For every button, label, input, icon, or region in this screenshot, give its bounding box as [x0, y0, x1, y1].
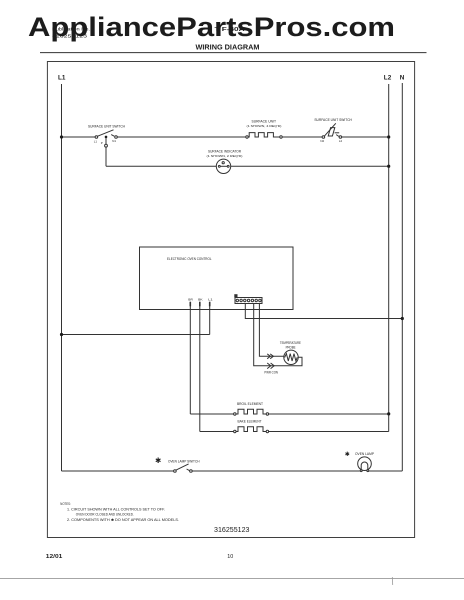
- svg-text:L2: L2: [339, 139, 343, 143]
- svg-text:WIRING DIAGRAM: WIRING DIAGRAM: [196, 42, 260, 51]
- svg-text:SURFACE UNIT SWITCH: SURFACE UNIT SWITCH: [88, 124, 126, 128]
- svg-text:T F-40A: T F-40A: [215, 27, 245, 33]
- svg-text:(1 SHOWN, 2 REQ'D): (1 SHOWN, 2 REQ'D): [207, 154, 243, 158]
- svg-text:L1: L1: [208, 297, 213, 301]
- svg-text:12/01: 12/01: [46, 554, 63, 560]
- svg-text:N: N: [400, 75, 405, 82]
- svg-text:(1 SHOWN, 4 REQ'D): (1 SHOWN, 4 REQ'D): [247, 124, 282, 128]
- svg-text:316255123: 316255123: [214, 527, 250, 534]
- svg-text:PWR CON: PWR CON: [264, 371, 278, 375]
- svg-text:✱: ✱: [345, 451, 350, 458]
- svg-text:SURFACE UNIT: SURFACE UNIT: [252, 120, 277, 124]
- svg-text:BK: BK: [198, 297, 203, 301]
- svg-text:L1: L1: [94, 139, 98, 143]
- svg-text:OVEN DOOR CLOSED AND UNLOCKED.: OVEN DOOR CLOSED AND UNLOCKED.: [76, 513, 134, 517]
- svg-text:OVEN LAMP SWITCH: OVEN LAMP SWITCH: [168, 460, 200, 464]
- svg-text:1. CIRCUIT SHOWN WITH ALL CO: 1. CIRCUIT SHOWN WITH ALL CONTROLS SET T…: [67, 508, 165, 512]
- svg-text:PROBE: PROBE: [286, 345, 297, 349]
- svg-text:N2: N2: [320, 139, 324, 143]
- svg-text:✱: ✱: [155, 456, 162, 465]
- svg-text:316255123: 316255123: [52, 34, 87, 40]
- svg-text:10: 10: [227, 554, 233, 560]
- svg-text:BAKE ELEMENT: BAKE ELEMENT: [238, 419, 262, 423]
- svg-text:N1: N1: [112, 139, 116, 143]
- svg-text:SURFACE UNIT SWITCH: SURFACE UNIT SWITCH: [314, 118, 352, 122]
- svg-text:Publication No.: Publication No.: [52, 27, 90, 33]
- svg-text:L1: L1: [58, 75, 66, 82]
- svg-text:SURFACE INDICATOR: SURFACE INDICATOR: [208, 150, 242, 154]
- svg-text:NOTES:: NOTES:: [60, 502, 71, 506]
- svg-text:2. COMPONENTS WITH ✱ DO NO: 2. COMPONENTS WITH ✱ DO NOT APPEAR ON AL…: [67, 518, 179, 522]
- svg-text:P: P: [101, 141, 103, 145]
- svg-text:L2: L2: [384, 75, 392, 82]
- svg-text:BROIL ELEMENT: BROIL ELEMENT: [237, 402, 263, 406]
- svg-text:ELECTRONIC OVEN CONTROL: ELECTRONIC OVEN CONTROL: [167, 257, 212, 261]
- svg-text:OVEN LAMP: OVEN LAMP: [355, 452, 375, 456]
